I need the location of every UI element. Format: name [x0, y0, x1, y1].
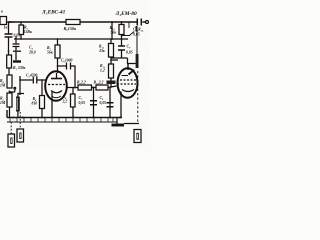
capacitor solid coupling	[107, 81, 116, 85]
node R5 top	[20, 21, 22, 23]
tube V1 anode	[51, 78, 62, 80]
connector J1	[10, 122, 12, 134]
wire ground bus	[7, 110, 122, 118]
node grid1	[41, 79, 43, 81]
wire R13 to anode node	[122, 26, 137, 36]
tube V1 grid	[48, 84, 65, 86]
tube V1 envelope	[45, 71, 67, 101]
wire pot to rail	[7, 21, 14, 23]
tube V2 envelope	[118, 68, 138, 98]
resistor R4	[7, 75, 12, 88]
capacitor C4 electrolytic	[15, 47, 17, 51]
resistor R8	[78, 85, 92, 90]
wire top B+ rail	[8, 21, 146, 23]
node switch junction	[9, 91, 11, 93]
chassis hatch ticks	[10, 118, 113, 123]
wire pot down lead	[8, 22, 10, 34]
resistor R10	[96, 85, 108, 90]
transformer bar	[136, 54, 139, 68]
grid leak R11v	[72, 88, 74, 95]
tube V2 grids	[120, 79, 136, 81]
tube V2 cathode	[122, 90, 134, 92]
potentiometer R1	[0, 17, 7, 25]
capacitor C5	[33, 77, 37, 84]
resistor R6 grid leak	[41, 80, 43, 96]
wire lower chassis line	[7, 121, 117, 123]
resistor R11	[111, 57, 118, 64]
tube V2 anode bold	[127, 64, 129, 71]
resistor R3	[7, 55, 12, 68]
capacitor C6	[58, 65, 67, 67]
node top-left junction	[9, 21, 11, 23]
capacitor C9	[121, 39, 123, 46]
capacitor C3	[13, 36, 20, 47]
connector J3	[134, 130, 141, 143]
wire anode lead	[57, 58, 59, 73]
resistor R9 on top rail	[66, 20, 80, 25]
node R5 bottom	[20, 38, 22, 40]
resistor R12	[110, 39, 112, 44]
capacitor C2	[5, 34, 13, 37]
resistor R7 anode load	[57, 38, 59, 40]
capacitor C10	[137, 19, 141, 26]
resistor R5	[20, 22, 22, 39]
wire screen stub	[128, 23, 130, 29]
ground symbol	[116, 118, 118, 124]
resistor R2	[7, 93, 12, 107]
connector J2	[19, 112, 21, 129]
terminal circle	[146, 21, 149, 24]
wire second rail	[14, 38, 128, 40]
dashed shield line	[137, 71, 139, 123]
node left chain	[8, 50, 10, 52]
capacitor C8	[109, 88, 111, 118]
capacitor C7	[93, 88, 95, 118]
wire tube1 to R8	[67, 87, 78, 89]
tube V1 cathode	[51, 91, 62, 93]
capacitor C1 solid	[18, 94, 24, 98]
vertical x112 between rails	[111, 22, 113, 39]
switch arm	[10, 89, 15, 92]
wire R3 to R4	[8, 68, 10, 75]
wire grid feed	[19, 76, 21, 95]
bus junction dots	[12, 117, 121, 119]
resistor R13	[121, 22, 123, 39]
